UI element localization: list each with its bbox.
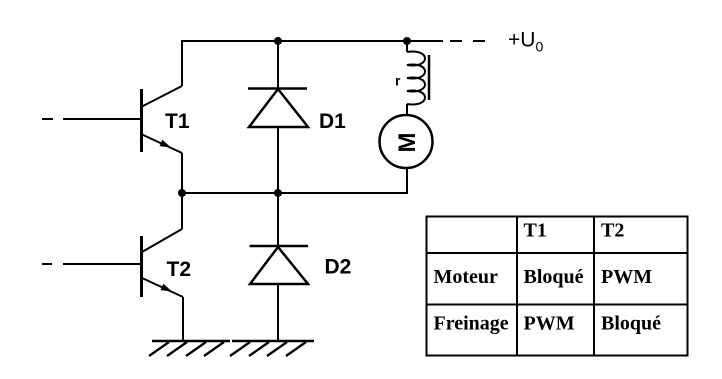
svg-text:D2: D2 [325,256,352,279]
transistor T1 emitter arrow [160,140,172,148]
diode D2 triangle [250,247,308,284]
net +U0 label [508,29,543,55]
wire inductor top stub [406,42,408,52]
transistor T2 emitter arrow [161,284,173,292]
svg-text:Bloqué: Bloqué [601,313,661,335]
transistor Q T1 collector diagonal [141,86,182,107]
label T2 [167,258,192,281]
svg-text:M: M [394,133,421,153]
table header T1 [524,220,547,242]
wire D2 bottom vertical [277,284,279,341]
svg-text:r: r [395,73,401,89]
svg-text:PWM: PWM [601,266,652,288]
table cell Moteur T1 Bloque [524,266,584,288]
table header T2 [601,220,624,242]
wire D1 bottom vertical [277,127,279,193]
transistor T2 collector diagonal [142,229,182,252]
ground left hatches [149,342,224,356]
wire D1 top vertical [277,41,279,88]
label D2 [325,256,352,279]
svg-text:T1: T1 [524,220,547,242]
node junction top D1 [274,37,282,45]
table frame [427,217,688,356]
svg-text:T2: T2 [167,258,192,281]
table row Freinage [434,313,509,335]
inductor core bar [428,55,431,100]
wire T1 base lead [63,118,140,120]
wire T1 emitter vertical [181,153,183,193]
wire T2 base dash stub [42,263,52,265]
diode D2 cathode bar [250,245,309,248]
wire middle rail [181,192,407,194]
wire T1 base dash stub [42,118,53,120]
wire dashed to supply [450,40,485,42]
wire T2 emitter vertical [182,297,184,341]
motor M circle [380,115,433,168]
node junction middle T1-T2 [178,189,186,197]
transistor T2 emitter diagonal [142,278,183,297]
ground left bar [152,340,230,343]
svg-text:T2: T2 [601,220,624,242]
wire D2 top vertical [277,193,279,247]
svg-text:Moteur: Moteur [434,266,499,288]
label r [395,73,401,89]
ground right bar [232,340,314,343]
wire inductor to motor stub [406,104,408,115]
table row Moteur [434,266,499,288]
ground right hatches [230,342,306,356]
table cell Moteur T2 PWM [601,266,652,288]
transistor T2 base bar [140,236,143,297]
table cell Freinage T2 Bloque [601,313,661,335]
svg-text:D1: D1 [319,110,346,133]
svg-text:Freinage: Freinage [434,313,509,335]
wire motor bottom vertical [406,168,408,194]
transistor T1 emitter diagonal [141,134,182,153]
svg-text:PWM: PWM [524,313,575,335]
table cell Freinage T1 PWM [524,313,575,335]
svg-text:T1: T1 [165,110,190,133]
svg-text:+U0: +U0 [508,29,543,55]
inductor r coil [407,51,425,104]
diode D1 cathode bar [248,87,307,90]
node junction top supply [403,37,411,45]
svg-text:Bloqué: Bloqué [524,266,584,288]
node junction middle D1-D2 [274,189,282,197]
label motor M [394,133,421,153]
wire T1 collector vertical [181,40,183,86]
label D1 [319,110,346,133]
wire T2 collector vertical [181,193,183,229]
label T1 [165,110,190,133]
transistor T1 base bar [140,89,143,152]
diode D1 triangle [249,89,308,127]
wire top rail [182,40,443,42]
wire T2 base lead [63,263,140,265]
